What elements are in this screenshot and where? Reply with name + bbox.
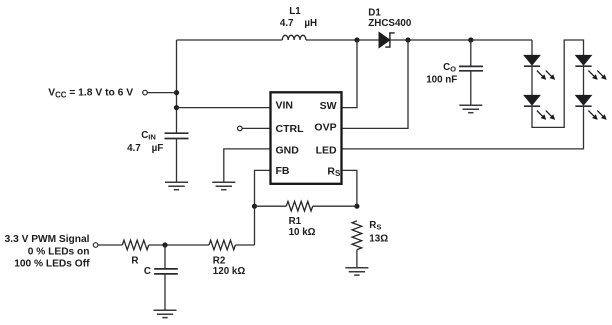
node RC junction <box>162 242 167 247</box>
wire GND pin <box>224 149 270 182</box>
wire R to junction <box>149 244 209 246</box>
LED2 light arrows <box>535 109 557 122</box>
wire rail L1 to D1 <box>306 39 379 41</box>
capacitor C <box>154 245 178 310</box>
ground C <box>154 310 177 317</box>
svg-text:FB: FB <box>276 165 290 177</box>
ground GND pin <box>212 182 235 189</box>
ground RS <box>345 268 368 275</box>
svg-text:VIN: VIN <box>276 100 294 112</box>
svg-text:OVP: OVP <box>314 122 336 134</box>
resistor R1 <box>286 201 312 211</box>
wire R1 right <box>313 205 357 207</box>
node RS R1 junction <box>354 204 359 209</box>
LED LED3 <box>575 55 591 66</box>
LED LED1 <box>524 55 540 66</box>
terminal PWM input <box>93 243 98 248</box>
svg-text:SW: SW <box>320 100 337 112</box>
LED4 light arrows <box>586 109 608 122</box>
svg-text:13Ω: 13Ω <box>369 234 388 245</box>
node SW junction <box>354 37 359 42</box>
node CO junction <box>468 37 473 42</box>
wire PWM terminal to R <box>98 244 122 246</box>
svg-text:CIN: CIN <box>141 130 156 142</box>
svg-text:R2: R2 <box>213 255 226 266</box>
svg-text:4.7 µF: 4.7 µF <box>127 143 163 154</box>
node VCC junction <box>174 90 179 95</box>
ground CIN <box>165 182 188 189</box>
node OVP junction <box>405 37 410 42</box>
svg-text:120 kΩ: 120 kΩ <box>213 266 246 277</box>
svg-text:D1: D1 <box>368 7 381 18</box>
svg-text:3.3 V PWM Signal: 3.3 V PWM Signal <box>5 234 90 245</box>
svg-text:CTRL: CTRL <box>276 123 305 135</box>
op-amp U1 IC box TPS61042 <box>271 92 342 184</box>
wire VIN pin <box>177 107 271 109</box>
resistor RS <box>352 221 362 268</box>
wire VCC terminal to rail <box>147 92 176 94</box>
wire LED1 to LED2 <box>531 66 533 95</box>
wire top rail left segment <box>177 39 283 41</box>
ground CO <box>459 105 482 112</box>
LED LED4 <box>575 95 591 106</box>
wire RS pin <box>342 170 357 206</box>
wire LED string1 drop <box>531 40 533 55</box>
svg-text:L1: L1 <box>289 6 301 17</box>
svg-text:10 kΩ: 10 kΩ <box>289 227 316 238</box>
wire OVP pin <box>342 40 409 128</box>
resistor R <box>122 240 148 250</box>
wire string1 bottom to string2 top <box>532 40 584 127</box>
svg-text:100 nF: 100 nF <box>426 74 457 85</box>
svg-text:RS: RS <box>369 220 381 232</box>
terminal VCC input <box>143 90 148 95</box>
LED LED2 <box>524 95 540 106</box>
inductor L1 <box>282 35 306 40</box>
wire LED3 to LED4 <box>583 66 585 95</box>
wire SW pin <box>342 40 358 108</box>
LED1 light arrows <box>535 69 557 82</box>
svg-text:CO: CO <box>443 62 456 74</box>
svg-text:R: R <box>131 255 138 266</box>
wire rail D1 to LED string <box>390 39 532 41</box>
resistor R2 <box>209 240 235 250</box>
wire FB pin <box>255 170 271 245</box>
node FB R1 junction <box>252 204 257 209</box>
wire R2 to FB node <box>235 244 254 246</box>
diode D1 <box>379 33 395 48</box>
svg-text:GND: GND <box>276 144 300 156</box>
capacitor CO <box>459 40 483 105</box>
svg-text:0 % LEDs on: 0 % LEDs on <box>28 246 90 257</box>
wire LED pin return <box>342 106 584 148</box>
svg-text:C: C <box>144 266 151 277</box>
svg-text:100 % LEDs Off: 100 % LEDs Off <box>14 259 90 270</box>
svg-text:LED: LED <box>316 144 337 156</box>
svg-text:R1: R1 <box>289 216 302 227</box>
terminal CTRL input <box>238 126 243 131</box>
wire CTRL pin <box>242 127 270 129</box>
capacitor CIN <box>165 133 189 182</box>
svg-text:ZHCS400: ZHCS400 <box>368 18 412 29</box>
wire left rail <box>176 40 178 133</box>
svg-text:4.7 µH: 4.7 µH <box>280 18 317 29</box>
LED3 light arrows <box>586 69 608 82</box>
wire R1 left <box>255 205 287 207</box>
node VIN junction <box>174 105 179 110</box>
